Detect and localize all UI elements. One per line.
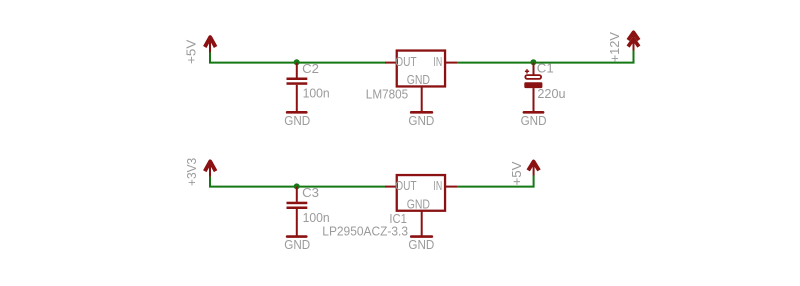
pin OUT (left stub) bbox=[385, 62, 397, 64]
label C2 bbox=[302, 61, 319, 76]
capacitor C1 (polarized) bbox=[524, 63, 542, 112]
regulator IC LM7805 (box) bbox=[397, 51, 445, 87]
label +5V (rotated) bbox=[184, 40, 199, 64]
junction at C3 / net N$3 bbox=[294, 183, 300, 189]
capacitor C2 bbox=[287, 63, 308, 112]
svg-text:C2: C2 bbox=[302, 61, 319, 76]
pin name GND (IC1) bbox=[407, 196, 430, 211]
value LM7805 bbox=[366, 87, 408, 102]
wire net N$2 (top, +5V side) bbox=[210, 52, 386, 63]
svg-text:+3V3: +3V3 bbox=[184, 158, 199, 186]
svg-text:+5V: +5V bbox=[509, 161, 524, 185]
value 100n (C2) bbox=[303, 85, 330, 100]
svg-text:LP2950ACZ-3.3: LP2950ACZ-3.3 bbox=[322, 224, 408, 239]
svg-text:IN: IN bbox=[433, 54, 442, 69]
pin name OUT (IC1) bbox=[395, 178, 416, 193]
pin name OUT bbox=[395, 54, 416, 69]
regulator IC1 LP2950 (box) bbox=[397, 175, 445, 211]
svg-text:C1: C1 bbox=[537, 61, 554, 76]
svg-text:100n: 100n bbox=[303, 85, 330, 100]
label C1 bbox=[537, 61, 554, 76]
supply symbol +5V (bottom right) bbox=[528, 161, 539, 176]
label GND (below C2) bbox=[284, 113, 310, 128]
pin name GND bbox=[407, 72, 430, 87]
label GND (below LM7805) bbox=[408, 113, 434, 128]
wire net N$1 (top, +12V side) bbox=[458, 50, 634, 62]
pin GND (bottom stub) bbox=[421, 87, 423, 112]
label +3V3 (rotated) bbox=[184, 158, 199, 186]
junction at C1 / net N$1 bbox=[530, 59, 536, 65]
svg-text:+5V: +5V bbox=[184, 40, 199, 64]
pin IN (right stub) bbox=[446, 62, 458, 64]
svg-text:C3: C3 bbox=[302, 185, 319, 200]
wire net N$4 (bottom, +5V side) bbox=[458, 175, 534, 187]
pin OUT (left stub, IC1) bbox=[385, 186, 397, 188]
pin name IN bbox=[433, 54, 442, 69]
pin name IN (IC1) bbox=[433, 178, 442, 193]
label +12V (rotated) bbox=[607, 32, 622, 62]
label GND (below C3) bbox=[284, 237, 310, 252]
supply symbol +5V (top left) bbox=[205, 37, 216, 53]
wire net N$3 (bottom, +3V3 side) bbox=[210, 176, 386, 187]
supply symbol +12V (top right, double arrow) bbox=[628, 32, 639, 51]
junction at C2 / net N$2 bbox=[294, 59, 300, 65]
ground symbol (below C2) bbox=[287, 111, 306, 114]
svg-text:GND: GND bbox=[408, 113, 434, 128]
pin IN (right stub, IC1) bbox=[446, 186, 458, 188]
label GND (below IC1) bbox=[408, 237, 434, 252]
svg-text:+12V: +12V bbox=[607, 32, 622, 62]
value 220u (C1) bbox=[537, 86, 565, 101]
value 100n (C3) bbox=[303, 210, 330, 225]
svg-text:GND: GND bbox=[284, 237, 310, 252]
svg-text:GND: GND bbox=[408, 237, 434, 252]
supply symbol +3V3 (bottom left) bbox=[205, 161, 216, 177]
svg-text:IN: IN bbox=[433, 178, 442, 193]
svg-text:220u: 220u bbox=[537, 86, 565, 101]
svg-text:GND: GND bbox=[284, 113, 310, 128]
svg-text:GND: GND bbox=[407, 196, 430, 211]
ground symbol (below LM7805) bbox=[411, 111, 432, 114]
ground symbol (below IC1) bbox=[411, 235, 432, 238]
name IC1 bbox=[389, 211, 406, 226]
capacitor C3 bbox=[287, 187, 308, 236]
svg-text:GND: GND bbox=[407, 72, 430, 87]
svg-text:OUT: OUT bbox=[395, 54, 416, 69]
pin GND (bottom stub, IC1) bbox=[421, 211, 423, 236]
label +5V (bottom, rotated) bbox=[509, 161, 524, 185]
svg-text:OUT: OUT bbox=[395, 178, 416, 193]
label C3 bbox=[302, 185, 319, 200]
svg-text:GND: GND bbox=[521, 113, 547, 128]
ground symbol (below C3) bbox=[287, 235, 306, 238]
ground symbol (below C1) bbox=[524, 111, 543, 114]
svg-text:LM7805: LM7805 bbox=[366, 87, 408, 102]
value LP2950ACZ-3.3 bbox=[322, 224, 408, 239]
label GND (below C1) bbox=[521, 113, 547, 128]
